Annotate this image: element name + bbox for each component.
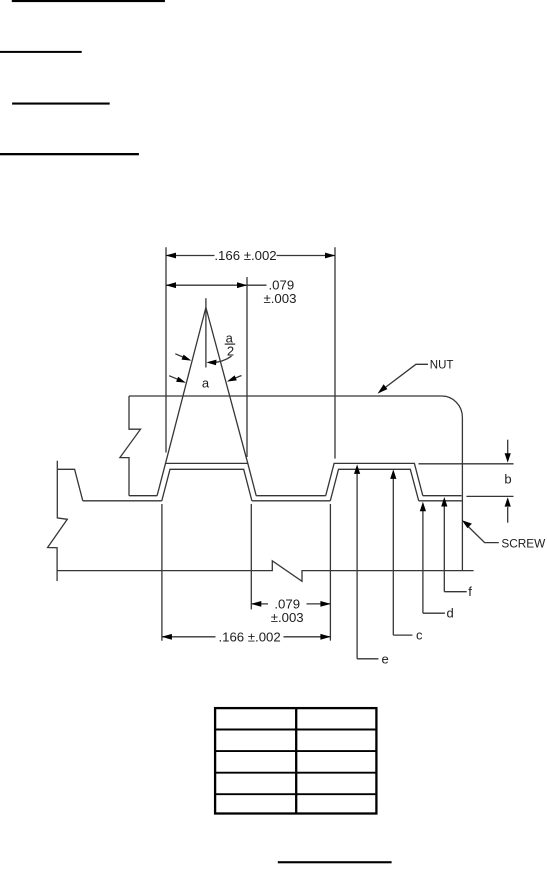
dimension .079 top left arrowhead xyxy=(166,282,176,288)
thread centerline xyxy=(205,298,207,367)
svg-text:NUT: NUT xyxy=(430,359,454,371)
extension line right x335 xyxy=(334,247,336,458)
nut rounded corner arc xyxy=(442,396,463,417)
heading underline 4 xyxy=(0,153,139,155)
leader f stub and label xyxy=(444,591,466,593)
svg-text:e: e xyxy=(382,651,389,666)
leader NUT arrowhead xyxy=(378,384,388,393)
svg-text:a: a xyxy=(202,376,210,391)
svg-text:.166 ±.002: .166 ±.002 xyxy=(214,248,276,263)
leader d stub and label xyxy=(423,612,445,614)
leader f vertical xyxy=(443,505,445,592)
sharp-V thread right flank xyxy=(206,308,248,464)
dimension .166 bottom right arrowhead xyxy=(320,634,330,640)
heading underline 3 xyxy=(12,103,110,105)
svg-text:c: c xyxy=(416,628,423,643)
svg-text:SCREW: SCREW xyxy=(501,537,546,551)
leader NUT xyxy=(381,364,429,391)
dimension .166 bottom left arrowhead xyxy=(162,634,172,640)
nut/screw right edge vertical xyxy=(461,417,463,570)
nut top surface line xyxy=(129,395,442,397)
leader d vertical xyxy=(422,509,424,613)
nut profile middle groove tip line xyxy=(256,495,326,497)
leader SCREW xyxy=(465,523,499,543)
sharp-V thread left flank xyxy=(166,308,206,464)
screw profile left root line xyxy=(83,500,162,502)
leader e vertical xyxy=(356,472,358,659)
leader e stub and label xyxy=(357,658,378,660)
svg-text:f: f xyxy=(468,584,472,599)
svg-text:d: d xyxy=(447,606,454,621)
b dimension upper arrow xyxy=(507,440,509,454)
leader SCREW arrowhead xyxy=(462,520,472,528)
dimension .079 top right arrowhead xyxy=(237,282,247,288)
svg-text:±.003: ±.003 xyxy=(271,610,304,625)
dimension .166 top right arrowhead xyxy=(325,253,335,259)
nut profile right tooth xyxy=(326,463,423,495)
leader a/2 arrowhead xyxy=(206,360,216,366)
dimension .166 top left arrowhead xyxy=(166,253,176,259)
screw profile right root line xyxy=(419,500,462,502)
svg-text:.166 ±.002: .166 ±.002 xyxy=(218,629,280,644)
bottom extension line x251.3 xyxy=(250,504,252,609)
angle arrow upper-left xyxy=(175,354,188,359)
nut profile right groove tip line xyxy=(423,495,462,497)
leader c arrowhead xyxy=(390,469,396,479)
leader c stub and label xyxy=(393,634,412,636)
leader d arrowhead xyxy=(420,502,426,512)
leader a/2 curved xyxy=(209,356,232,362)
screw left edge with break xyxy=(48,461,68,581)
screw profile middle root line xyxy=(252,500,330,502)
dimension .166 bottom line xyxy=(162,636,216,638)
bottom extension line x330.4 xyxy=(329,504,331,641)
data table xyxy=(215,708,376,813)
angle arrow right xyxy=(230,376,241,381)
bottom extension line x161.9 xyxy=(161,504,163,641)
label a/2 fraction bar xyxy=(225,343,236,345)
b dimension upper extension line xyxy=(419,463,514,465)
heading underline 2 xyxy=(0,51,82,53)
screw profile middle tooth xyxy=(162,469,252,501)
dimension .079 bottom left arrowhead xyxy=(251,601,261,607)
nut left edge with break xyxy=(120,396,141,496)
svg-text:±.003: ±.003 xyxy=(264,291,297,306)
nut profile middle tooth xyxy=(157,463,256,495)
dimension .079 bottom right arrowhead xyxy=(320,601,330,607)
b dimension lower arrow xyxy=(507,507,509,523)
bottom caption underline xyxy=(278,861,392,863)
screw profile left partial crest xyxy=(57,469,83,501)
leader c vertical xyxy=(392,477,394,635)
angle arrow lower-left xyxy=(169,376,183,382)
screw profile right tooth xyxy=(330,469,418,501)
screw body bottom line with break jog xyxy=(57,561,474,581)
dimension .166 top line xyxy=(166,255,215,257)
extension line mid x247 xyxy=(246,277,248,457)
leader e arrowhead xyxy=(354,464,360,474)
svg-text:b: b xyxy=(504,472,511,487)
nut profile left groove tip line xyxy=(129,495,157,497)
b dimension lower extension line xyxy=(466,495,513,497)
dimension .079 bottom line xyxy=(251,603,268,605)
leader f arrowhead xyxy=(441,497,447,507)
heading underline 1 (top left) xyxy=(12,0,165,2)
dimension .079 top line xyxy=(166,284,267,286)
extension line left x166 xyxy=(165,247,167,452)
